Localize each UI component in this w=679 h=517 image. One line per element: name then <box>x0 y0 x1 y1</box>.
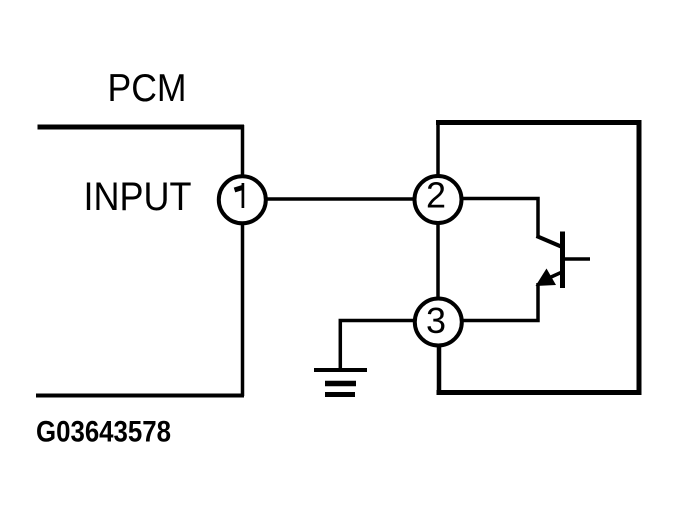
wire: PCM box top edge <box>38 125 245 130</box>
ground <box>314 370 367 395</box>
wire from terminal 2 to transistor collector <box>462 199 538 239</box>
svg-text:3: 3 <box>426 300 446 341</box>
wire: sensor box left edge between terminals 2 and 3 <box>436 223 440 298</box>
svg-text:PCM: PCM <box>108 67 187 110</box>
pin number 1 (digit stem) <box>242 183 245 208</box>
wire: sensor box top edge <box>436 120 642 125</box>
wire: sensor box bottom edge <box>437 390 642 395</box>
ground bottom bar <box>325 392 355 397</box>
svg-text:INPUT: INPUT <box>84 175 192 219</box>
wire: PCM box bottom edge <box>36 394 244 398</box>
wire: sensor box left edge above terminal 2 <box>436 120 440 176</box>
transistor emitter diagonal <box>540 273 561 283</box>
ground top bar <box>314 368 367 372</box>
PCM box (open-left rectangle) <box>36 125 244 396</box>
transistor base lead stub <box>563 257 590 261</box>
svg-text:G03643578: G03643578 <box>36 416 171 449</box>
transistor Q1 <box>536 232 591 289</box>
transistor base bar <box>560 232 565 289</box>
wire: PCM box right edge lower segment <box>241 224 245 396</box>
svg-text:2: 2 <box>426 175 446 216</box>
wire: PCM box right edge upper segment <box>241 125 245 176</box>
transistor collector diagonal <box>537 236 562 247</box>
transistor emitter arrow <box>536 269 557 287</box>
terminal 3 <box>415 299 462 346</box>
ground middle bar <box>325 381 356 387</box>
wire from terminal 1 to terminal 2 <box>266 197 414 201</box>
wire: sensor box right edge <box>637 120 642 395</box>
sensor box (right box) <box>436 120 642 395</box>
wire from terminal 3 to transistor emitter <box>462 283 538 321</box>
terminal 1 circle <box>219 176 266 223</box>
terminal 2 circle <box>415 176 462 223</box>
wire from terminal 3 to ground <box>340 321 414 371</box>
terminal 2 <box>415 175 462 224</box>
terminal 3 circle <box>415 299 462 346</box>
wire: sensor box left edge below terminal 3 <box>437 346 442 394</box>
pin number 1 (digit flag) <box>235 188 243 191</box>
terminal 1 <box>219 176 266 223</box>
